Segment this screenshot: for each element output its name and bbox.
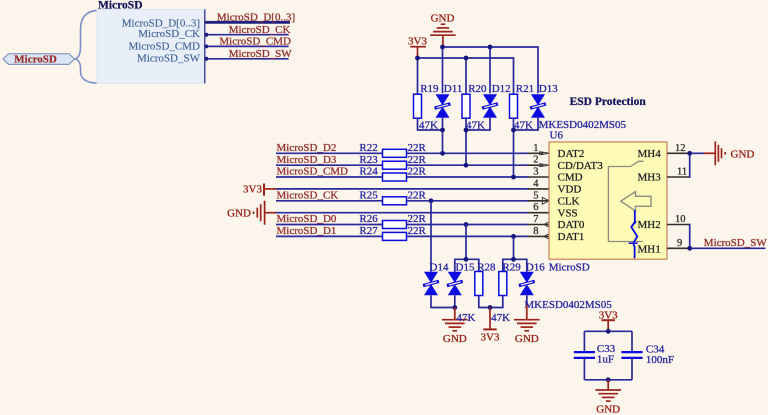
svg-text:R25: R25 bbox=[359, 189, 378, 201]
svg-text:MH2: MH2 bbox=[638, 219, 661, 231]
resistor R29 bbox=[499, 272, 507, 296]
wire R19 up bbox=[417, 58, 419, 94]
svg-text:DAT0: DAT0 bbox=[558, 219, 585, 231]
wire row6 VSS bbox=[276, 212, 529, 214]
pin7 input arrow bbox=[544, 221, 550, 227]
junction bbox=[464, 257, 469, 262]
port MicroSD bbox=[3, 54, 75, 65]
svg-text:D15: D15 bbox=[456, 261, 475, 273]
svg-text:MicroSD_D[0..3]: MicroSD_D[0..3] bbox=[217, 12, 295, 24]
svg-text:MicroSD: MicroSD bbox=[14, 54, 57, 66]
component U6 body bbox=[549, 142, 667, 259]
svg-text:100nF: 100nF bbox=[646, 354, 674, 366]
svg-text:MicroSD_D1: MicroSD_D1 bbox=[277, 225, 337, 237]
svg-text:MH4: MH4 bbox=[638, 148, 662, 160]
svg-text:R24: R24 bbox=[359, 166, 378, 178]
svg-text:MicroSD: MicroSD bbox=[549, 261, 590, 273]
pin 5 stub bbox=[528, 200, 550, 202]
svg-text:11: 11 bbox=[677, 167, 687, 178]
svg-text:1uF: 1uF bbox=[597, 354, 614, 366]
svg-text:MicroSD_D3: MicroSD_D3 bbox=[277, 154, 337, 166]
card outline bbox=[608, 161, 643, 241]
power GND bottom right bbox=[526, 305, 528, 320]
wire R29 bottom bbox=[490, 296, 503, 308]
wire GND rail bbox=[443, 47, 539, 93]
svg-text:R19: R19 bbox=[420, 83, 439, 95]
svg-text:1: 1 bbox=[533, 143, 538, 154]
wire D12 bottom bend bbox=[466, 118, 490, 130]
pin5 clock arrow bbox=[542, 197, 549, 204]
wire pin11 to pin12 bbox=[689, 153, 705, 177]
svg-text:MH3: MH3 bbox=[638, 172, 662, 184]
svg-text:22R: 22R bbox=[408, 213, 427, 225]
junction row1 bbox=[440, 151, 445, 156]
wire D14 bottom bbox=[431, 295, 455, 307]
svg-text:D16: D16 bbox=[526, 261, 545, 273]
wire row4 VDD bbox=[276, 188, 529, 190]
wire D16 bottom bbox=[526, 295, 528, 306]
harness brace bbox=[75, 10, 97, 83]
wire R20 up bbox=[465, 58, 467, 94]
pin1 IO arrow bbox=[540, 152, 550, 240]
junction bbox=[415, 56, 420, 61]
diode D14 bbox=[423, 272, 439, 296]
wire cap top rail bbox=[584, 330, 632, 332]
svg-text:MH1: MH1 bbox=[638, 243, 661, 255]
svg-text:3V3: 3V3 bbox=[481, 332, 500, 344]
svg-text:22R: 22R bbox=[408, 166, 427, 178]
wire C34 bottom bbox=[631, 358, 633, 380]
wire R21 down to row3 bbox=[513, 119, 515, 178]
diode D16 bbox=[519, 272, 535, 296]
svg-text:MicroSD_D2: MicroSD_D2 bbox=[277, 142, 337, 154]
junction bbox=[488, 305, 493, 310]
wire split to D16 bbox=[514, 259, 527, 271]
wire row5 to D14 bbox=[430, 201, 432, 272]
junction bbox=[606, 329, 611, 334]
svg-text:D13: D13 bbox=[539, 83, 558, 95]
junction bbox=[464, 56, 469, 61]
power GND bottom left bbox=[454, 308, 456, 320]
pin 11 stub bbox=[667, 176, 689, 178]
pin8 input arrow bbox=[544, 233, 550, 239]
svg-text:4: 4 bbox=[533, 178, 539, 189]
svg-text:CD/DAT3: CD/DAT3 bbox=[558, 160, 604, 172]
wire MicroSD_SW bbox=[205, 58, 289, 60]
svg-text:R21: R21 bbox=[516, 83, 534, 95]
svg-text:9: 9 bbox=[677, 238, 682, 249]
svg-text:MicroSD_CMD: MicroSD_CMD bbox=[277, 166, 349, 178]
power GND caps bbox=[607, 380, 609, 390]
wire split to D15 bbox=[455, 259, 466, 271]
svg-text:3: 3 bbox=[533, 167, 538, 178]
diode D15 bbox=[447, 272, 463, 296]
wire 3V3 rail bbox=[418, 58, 514, 94]
harness box bbox=[97, 9, 205, 83]
svg-text:MicroSD: MicroSD bbox=[98, 0, 143, 12]
wire row8 bbox=[276, 235, 529, 237]
junction bbox=[687, 246, 692, 251]
svg-text:6: 6 bbox=[533, 202, 538, 213]
svg-text:MicroSD_SW: MicroSD_SW bbox=[229, 48, 293, 60]
capacitor C33 bbox=[574, 351, 595, 353]
svg-text:MicroSD_D0: MicroSD_D0 bbox=[277, 213, 337, 225]
junction bbox=[488, 45, 493, 50]
svg-text:VDD: VDD bbox=[558, 184, 582, 196]
wire MicroSD_CK bbox=[205, 34, 289, 36]
wire D11 up bbox=[442, 47, 444, 93]
pin 4 stub bbox=[528, 188, 550, 190]
diode D13 bbox=[530, 94, 546, 118]
bus wire MicroSD_D[0..3] bbox=[205, 21, 290, 24]
svg-text:R23: R23 bbox=[359, 154, 378, 166]
pin 9 stub bbox=[667, 247, 689, 249]
junction row3 bbox=[511, 175, 516, 180]
svg-text:MicroSD_CK: MicroSD_CK bbox=[277, 189, 339, 201]
wire row5 bbox=[276, 200, 529, 202]
pin 1 stub bbox=[528, 152, 540, 154]
junction bbox=[511, 128, 516, 133]
power 3V3 bottom bbox=[489, 308, 491, 330]
svg-text:GND: GND bbox=[731, 149, 755, 161]
svg-text:MicroSD_CMD: MicroSD_CMD bbox=[219, 36, 291, 48]
junction bbox=[606, 377, 611, 382]
card arrow bbox=[621, 192, 651, 212]
svg-text:12: 12 bbox=[675, 143, 686, 154]
junction bbox=[440, 45, 445, 50]
power GND right bbox=[704, 152, 715, 154]
svg-text:MicroSD_CK: MicroSD_CK bbox=[229, 24, 291, 36]
svg-text:R22: R22 bbox=[359, 142, 377, 154]
svg-text:GND: GND bbox=[431, 12, 455, 24]
svg-text:U6: U6 bbox=[550, 130, 564, 142]
junction bbox=[464, 128, 469, 133]
capacitor C34 bbox=[621, 351, 642, 353]
svg-text:MicroSD_CK: MicroSD_CK bbox=[138, 28, 200, 40]
svg-text:MicroSD_SW: MicroSD_SW bbox=[704, 237, 768, 249]
wire R19 bottom bend bbox=[418, 119, 443, 131]
wire C34 top bbox=[631, 331, 633, 352]
svg-text:R26: R26 bbox=[359, 213, 378, 225]
junction bbox=[452, 305, 457, 310]
svg-text:D11: D11 bbox=[444, 83, 463, 95]
junction row5 bbox=[429, 198, 434, 203]
pin 8 stub bbox=[528, 235, 550, 237]
svg-text:GND: GND bbox=[227, 208, 251, 220]
wire D13 bottom bend bbox=[514, 118, 539, 130]
wire row3 bbox=[276, 176, 529, 178]
wire row8 down bbox=[513, 236, 515, 259]
wire R28 bottom bbox=[479, 296, 490, 308]
switch SW bbox=[631, 210, 637, 258]
wire split to R28 bbox=[466, 259, 479, 271]
pin 6 stub bbox=[528, 212, 550, 214]
svg-text:VSS: VSS bbox=[558, 207, 578, 219]
svg-text:D14: D14 bbox=[430, 261, 449, 273]
wire split to R29 bbox=[503, 259, 514, 271]
svg-text:CMD: CMD bbox=[558, 172, 583, 184]
svg-text:CLK: CLK bbox=[558, 196, 580, 208]
svg-text:GND: GND bbox=[596, 403, 620, 415]
svg-text:GND: GND bbox=[443, 333, 467, 345]
wire D11 down to row1 bbox=[442, 118, 444, 154]
wire C33 top bbox=[583, 331, 585, 352]
svg-text:GND: GND bbox=[515, 333, 539, 345]
junction bbox=[511, 257, 516, 262]
pin 10 stub bbox=[667, 224, 689, 226]
diode D11 bbox=[435, 94, 451, 118]
svg-text:10: 10 bbox=[675, 214, 686, 225]
resistor R20 bbox=[462, 94, 470, 118]
wire row7 down bbox=[465, 225, 467, 260]
diode D12 bbox=[482, 94, 498, 118]
wire R20 down to row2 bbox=[465, 119, 467, 166]
wire pin9 MicroSD_SW bbox=[690, 247, 766, 249]
pin 12 stub bbox=[667, 152, 689, 154]
svg-text:DAT1: DAT1 bbox=[558, 231, 585, 243]
svg-text:7: 7 bbox=[533, 214, 538, 225]
wire D15 bottom bbox=[454, 295, 456, 308]
wire C33 bottom bbox=[583, 358, 585, 380]
svg-text:R27: R27 bbox=[359, 225, 378, 237]
svg-text:22R: 22R bbox=[408, 225, 427, 237]
wire cap bottom rail bbox=[584, 379, 632, 381]
svg-text:MicroSD_CMD: MicroSD_CMD bbox=[128, 40, 200, 52]
pin 7 stub bbox=[528, 224, 550, 226]
pin 2 stub bbox=[528, 164, 540, 166]
svg-text:3V3: 3V3 bbox=[243, 184, 262, 196]
svg-text:47K: 47K bbox=[491, 312, 510, 324]
pin 3 stub bbox=[528, 176, 550, 178]
junction row2 bbox=[464, 163, 469, 168]
resistor R19 bbox=[414, 94, 422, 118]
svg-text:22R: 22R bbox=[408, 154, 427, 166]
svg-text:2: 2 bbox=[533, 155, 538, 166]
svg-text:DAT2: DAT2 bbox=[558, 148, 585, 160]
svg-text:22R: 22R bbox=[408, 189, 427, 201]
svg-text:47K: 47K bbox=[456, 312, 475, 324]
wire row2 bbox=[276, 164, 529, 166]
svg-text:8: 8 bbox=[533, 226, 538, 237]
wire D12 up bbox=[489, 47, 491, 93]
wire row1 bbox=[276, 152, 529, 154]
junction row8 bbox=[511, 234, 516, 239]
junction bbox=[687, 151, 692, 156]
svg-text:5: 5 bbox=[533, 190, 538, 201]
svg-text:MicroSD_SW: MicroSD_SW bbox=[137, 53, 201, 65]
junction row7 bbox=[464, 222, 469, 227]
resistor R28 bbox=[475, 272, 483, 296]
resistor R21 bbox=[510, 94, 518, 118]
svg-text:D12: D12 bbox=[492, 83, 511, 95]
wire row7 bbox=[276, 224, 529, 226]
svg-text:ESD Protection: ESD Protection bbox=[570, 96, 647, 108]
svg-text:22R: 22R bbox=[408, 142, 427, 154]
junction bbox=[440, 128, 445, 133]
svg-text:R20: R20 bbox=[468, 83, 487, 95]
wire pin10 to pin9 bbox=[688, 225, 691, 249]
wire MicroSD_CMD bbox=[205, 45, 289, 47]
